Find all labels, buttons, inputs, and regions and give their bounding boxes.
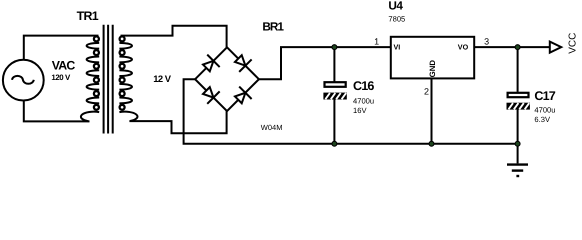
svg-text:W04M: W04M [261,123,283,132]
svg-text:6.3V: 6.3V [534,115,551,124]
svg-text:TR1: TR1 [77,9,99,23]
svg-text:U4: U4 [388,0,403,13]
svg-text:BR1: BR1 [262,20,284,34]
svg-text:4700u: 4700u [534,105,555,114]
svg-text:3: 3 [484,37,489,47]
svg-text:VI: VI [394,43,401,52]
svg-text:12 V: 12 V [153,73,172,84]
svg-text:16V: 16V [353,106,367,115]
svg-text:120 V: 120 V [51,73,71,82]
svg-text:C17: C17 [534,89,555,103]
svg-text:VAC: VAC [52,59,76,73]
svg-text:VO: VO [458,43,469,52]
svg-text:1: 1 [374,36,379,46]
svg-text:2: 2 [424,87,429,97]
svg-text:VCC: VCC [568,33,579,54]
svg-text:7805: 7805 [388,14,405,23]
svg-text:C16: C16 [353,79,374,93]
svg-text:4700u: 4700u [353,96,374,105]
svg-text:GND: GND [428,60,437,78]
